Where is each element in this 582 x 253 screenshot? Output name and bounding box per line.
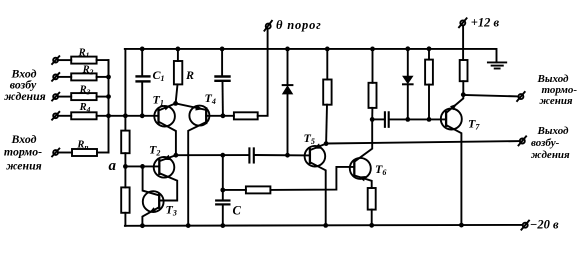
wire — [255, 154, 310, 156]
resistor R3 — [58, 93, 109, 100]
resistor R — [174, 49, 182, 104]
terminal input R4 — [52, 112, 59, 120]
wire +12 feed — [462, 26, 464, 60]
svg-text:−20 в: −20 в — [530, 218, 559, 232]
terminal input R2 — [52, 73, 59, 81]
svg-text:Вход: Вход — [11, 132, 37, 146]
resistor T6 collector load — [369, 49, 377, 120]
wire — [390, 118, 446, 120]
resistor divider upper — [121, 131, 129, 154]
svg-text:Выход: Выход — [537, 125, 570, 137]
diode D1 — [283, 49, 293, 155]
resistor D2 side — [425, 49, 433, 120]
svg-text:a: a — [109, 158, 117, 174]
transistor T7 — [441, 95, 464, 226]
wire node a line — [125, 165, 159, 167]
svg-text:тормо-: тормо- — [4, 145, 42, 159]
svg-text:тормо-: тормо- — [542, 84, 578, 96]
svg-text:жения: жения — [6, 159, 42, 173]
resistor T6 emitter — [368, 188, 376, 210]
resistor R4 — [58, 112, 97, 119]
svg-text:ждения: ждения — [531, 149, 570, 161]
resistor T7 collector — [460, 60, 468, 81]
wire excitation output line — [326, 141, 520, 143]
wire left vertical from top rail — [124, 49, 126, 131]
svg-text:С: С — [233, 204, 242, 218]
capacitor C — [216, 190, 229, 226]
resistor Rp — [58, 149, 109, 156]
transistor T4 — [176, 103, 210, 225]
wire to threshold terminal — [258, 29, 268, 116]
wire bottom -20V rail — [125, 224, 523, 227]
diode D2 — [403, 49, 413, 120]
terminal excitation output — [519, 136, 527, 145]
terminal input Rp — [52, 149, 59, 157]
svg-text:возбу-: возбу- — [531, 137, 560, 149]
junction dots input chain — [106, 75, 225, 119]
svg-text:+12 в: +12 в — [471, 16, 500, 30]
terminal -20V — [521, 221, 529, 230]
svg-text:θ порог: θ порог — [276, 18, 322, 32]
terminal input R1 — [52, 56, 59, 64]
terminal theta — [264, 21, 272, 31]
transistor T3 — [142, 166, 163, 225]
capacitor C1 — [137, 49, 150, 116]
wire — [124, 153, 126, 187]
resistor T5 load — [323, 49, 331, 144]
transistor T5 — [305, 143, 327, 225]
svg-text:ждения: ждения — [4, 89, 46, 103]
capacitor T7 base — [385, 112, 389, 127]
wire brake output — [463, 95, 518, 96]
capacitor top-2 — [216, 49, 230, 116]
transistor T2 — [154, 155, 178, 201]
svg-text:жения: жения — [540, 95, 573, 107]
terminal +12V — [459, 18, 467, 27]
terminal input R3 — [52, 93, 59, 101]
wire input summing vertical — [108, 60, 110, 152]
wire coupling line — [176, 154, 248, 156]
wire — [462, 81, 464, 95]
junction dots bottom rail — [140, 223, 464, 228]
junction dots middle — [173, 92, 465, 192]
wire to T6 base — [270, 167, 354, 190]
wire T4 base — [206, 115, 234, 117]
resistor R2 — [58, 73, 109, 80]
terminal brake output — [517, 92, 525, 101]
resistor T6 base — [246, 186, 271, 193]
capacitor coupling — [249, 148, 253, 162]
resistor divider lower — [121, 187, 129, 212]
resistor T4 base — [234, 112, 258, 119]
wire top common rail — [125, 49, 497, 62]
resistor R1 — [58, 57, 109, 77]
wire base line T1 — [97, 115, 159, 117]
junction dots top rail — [140, 46, 432, 51]
wire base line T7 — [372, 118, 384, 120]
wire T6 base network — [222, 155, 224, 190]
transistor T6 — [350, 119, 372, 188]
wire — [124, 213, 126, 226]
ground — [488, 62, 506, 68]
svg-text:R: R — [185, 68, 194, 82]
junction dots node a — [123, 164, 145, 169]
transistor T1 — [154, 103, 176, 155]
wire — [371, 210, 373, 226]
